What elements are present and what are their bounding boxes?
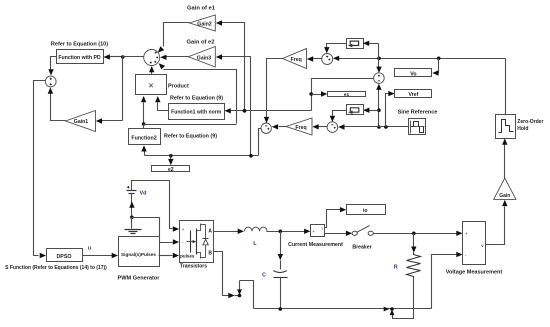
wire Function2 output to Product <box>143 103 145 125</box>
block Unit Delay lower <box>347 105 364 115</box>
wire Function1 output to Product <box>158 103 169 111</box>
sum A4 <box>327 122 338 133</box>
wire rail into Unit Delay upper <box>369 43 379 45</box>
wire Freq lower output to sum A5 <box>279 126 287 128</box>
gain Gain1 <box>66 111 96 132</box>
block Function2 <box>129 129 161 145</box>
svg-text:u: u <box>88 246 91 252</box>
svg-text:Gain of e1: Gain of e1 <box>187 6 216 12</box>
wire sum A3 output to Freq <box>313 58 322 60</box>
svg-text:A: A <box>208 228 212 234</box>
svg-text:Signal(s)Pulses: Signal(s)Pulses <box>121 252 156 257</box>
svg-text:C: C <box>262 273 266 279</box>
svg-text:Refer to Equation (9): Refer to Equation (9) <box>170 95 223 101</box>
svg-text:Current Measurement: Current Measurement <box>288 242 343 248</box>
wire sine riser to sum M bottom <box>378 90 380 127</box>
block Function with PD <box>57 50 104 64</box>
svg-text:Vd: Vd <box>140 191 147 197</box>
wire inductor to Current Measurement <box>267 231 305 233</box>
svg-text:Freq: Freq <box>295 125 306 131</box>
tag Vo <box>395 69 432 77</box>
svg-text:Freq: Freq <box>291 57 302 63</box>
wire e2 rail <box>145 155 259 157</box>
svg-text:Product: Product <box>168 83 189 89</box>
svg-text:Refer to Equation (9): Refer to Equation (9) <box>164 134 217 140</box>
wire node to Transistors minus <box>132 218 173 243</box>
svg-text:Function2: Function2 <box>131 135 156 141</box>
svg-text:Gain: Gain <box>499 193 510 199</box>
svg-text:Vo: Vo <box>410 72 416 78</box>
svg-text:Voltage Measurement: Voltage Measurement <box>446 269 503 275</box>
transistor mosfet symbol <box>190 231 192 253</box>
svg-text:+: + <box>182 227 185 232</box>
wire Unit Delay lower output to sum A4 <box>333 111 347 116</box>
svg-text:PWM Generator: PWM Generator <box>118 276 161 282</box>
resistor R <box>407 253 421 278</box>
svg-text:e1: e1 <box>344 92 350 98</box>
svg-text:Gain of e2: Gain of e2 <box>186 40 214 46</box>
capacitor C <box>273 271 287 273</box>
tag e2 <box>152 166 190 172</box>
node B junction <box>238 294 242 298</box>
block Product <box>136 75 167 95</box>
wire Function2 branch to sum A1 <box>164 70 237 124</box>
wire C bottom to rail <box>280 278 282 309</box>
wire Freq upper output to sum A5 <box>267 59 283 118</box>
source Vd <box>127 190 137 192</box>
wire e2 rail into Function2 <box>144 151 146 156</box>
block Current Measurement <box>311 225 325 237</box>
wire Current Measurement to io <box>325 210 341 228</box>
wire Product output to sum A1 <box>151 72 153 75</box>
breaker switch <box>352 231 357 235</box>
wire PWM to Transistors pulses <box>159 255 173 257</box>
wire into Gain3 <box>221 57 251 156</box>
svg-text:Zero-Order: Zero-Order <box>517 119 543 125</box>
svg-text:Hold: Hold <box>517 126 528 132</box>
wire Current Measurement to Breaker <box>325 233 347 235</box>
svg-text:Function1 with norm: Function1 with norm <box>171 110 222 116</box>
svg-text:Gain3: Gain3 <box>197 55 212 61</box>
wire Transistors B path <box>214 252 229 296</box>
wire sum A2 output to DPSO <box>34 81 46 256</box>
svg-text:Breaker: Breaker <box>352 244 371 250</box>
wire Breaker to Voltage Measurement plus <box>374 233 457 235</box>
block Function1 with norm <box>169 104 225 120</box>
gain Gain vertical <box>494 178 516 199</box>
wire rail riser to Voltage Measurement minus <box>432 255 457 309</box>
wire riser tap to Unit Delay lower <box>369 110 379 112</box>
block DPSO <box>47 249 83 262</box>
gain Gain2 <box>190 15 216 31</box>
wire Gain output to ZOH <box>504 145 506 179</box>
wire Gain2 output to sum A1 <box>164 23 190 47</box>
gain Gain3 <box>188 47 215 68</box>
wire junction to Function2 top <box>143 125 145 129</box>
wire into Function1 <box>230 110 312 112</box>
wire Vd plus to Transistors <box>132 181 173 229</box>
block Unit Delay upper <box>347 39 364 49</box>
gain Freq upper <box>283 48 307 68</box>
svg-text:i: i <box>322 226 323 231</box>
block PWM Generator <box>119 237 160 267</box>
block Zero-Order Hold <box>496 115 516 139</box>
block Sine Reference <box>409 119 426 135</box>
tag Vref <box>395 90 432 98</box>
wire ZOH output to top rail <box>505 59 507 115</box>
svg-text:DPSO: DPSO <box>56 254 71 260</box>
sum A3 top <box>322 54 333 65</box>
svg-text:pulses: pulses <box>180 253 195 258</box>
block Transistors <box>180 221 214 263</box>
wire Unit Delay upper output to sum A3 <box>327 44 347 49</box>
svg-text:io: io <box>363 208 368 214</box>
sum M <box>374 73 385 84</box>
wire R bottom to rail <box>393 278 414 319</box>
svg-text:+: + <box>465 232 468 237</box>
wire jog to bottom rail <box>240 281 254 309</box>
wire rail riser to unit delay and sum M <box>378 44 380 59</box>
svg-text:Transistors: Transistors <box>180 264 207 270</box>
svg-text:B: B <box>208 250 212 256</box>
svg-text:Gain2: Gain2 <box>197 21 212 27</box>
svg-text:Vref: Vref <box>408 92 418 98</box>
wire sum M output to e1 rail <box>312 79 374 111</box>
sum A1 <box>144 50 160 66</box>
wire bottom rail <box>254 308 432 310</box>
sum A5 <box>261 123 271 133</box>
svg-text:e2: e2 <box>168 167 174 173</box>
svg-text:+: + <box>312 229 315 234</box>
wire Function with PD output to sum A2 <box>51 57 57 72</box>
capacitor C riser <box>280 232 282 255</box>
svg-text:R: R <box>394 265 398 271</box>
wire into Function with PD <box>109 56 123 58</box>
gain Freq lower <box>286 118 312 135</box>
svg-text:S Function (Refer to Equations: S Function (Refer to Equations (14) to (… <box>5 265 107 271</box>
svg-text:×: × <box>148 81 153 91</box>
wire Transistors A to inductor <box>214 231 239 233</box>
tag e1 <box>328 92 366 97</box>
wire sine line <box>345 126 409 128</box>
wire top rail <box>339 58 506 60</box>
wire sum A4 output to Freq lower <box>318 126 328 128</box>
wire Vd minus <box>131 194 133 218</box>
wire into tag e2 <box>170 156 172 160</box>
wire Gain1 output to sum A2 <box>51 94 66 121</box>
wire sum A5 output to e2 rail <box>259 129 262 156</box>
svg-text:Gain1: Gain1 <box>74 119 89 125</box>
wire Vo tap <box>438 59 439 73</box>
wire into Gain2 <box>221 23 245 111</box>
svg-text:Refer to Equation (10): Refer to Equation (10) <box>51 42 108 48</box>
wire node to Gain1 input <box>122 57 124 121</box>
ground <box>131 218 133 229</box>
wire Gain3 output to sum A1 <box>167 56 189 58</box>
block Voltage Measurement <box>463 222 486 265</box>
svg-text:Sine Reference: Sine Reference <box>398 110 438 116</box>
svg-text:Function with PD: Function with PD <box>58 55 101 61</box>
wire Vref riser <box>386 94 389 127</box>
sum A2 <box>45 76 56 87</box>
wire to resistor R <box>413 234 415 247</box>
tag io <box>347 205 386 215</box>
wire sum A1 output <box>123 56 144 58</box>
wire Voltage Measurement output to Gain <box>486 207 505 245</box>
inductor L <box>245 227 268 231</box>
wire into tag e1 <box>312 94 322 96</box>
wire DPSO to PWM Generator <box>83 255 113 257</box>
